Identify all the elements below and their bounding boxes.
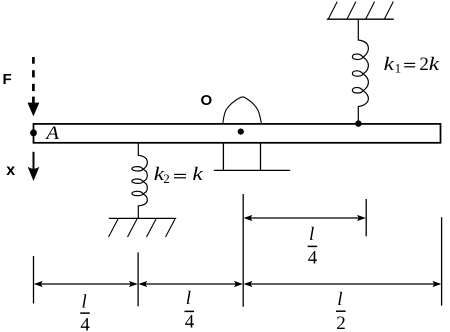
lower dimension arrows [35, 283, 440, 285]
svg-text:1: 1 [395, 60, 402, 75]
svg-text:k: k [429, 53, 440, 75]
pivot stand legs [223, 142, 260, 170]
svg-text:l: l [337, 289, 342, 310]
top fixed support line [327, 18, 394, 20]
svg-text:2: 2 [419, 54, 429, 75]
upper dimension arrow (l/4 from pivot to spring k1) [246, 217, 364, 219]
svg-text:x: x [6, 162, 15, 179]
lower fraction l/2 (right) [336, 289, 346, 332]
pivot dome above beam [223, 97, 262, 124]
dimension extension line at pivot (x=243) [242, 194, 244, 307]
bottom ground hatching [109, 219, 176, 237]
top support hatching [328, 2, 393, 20]
dimension tick at x=138 [137, 252, 139, 306]
svg-text:l: l [309, 224, 314, 245]
spring k2 (coil) [132, 142, 147, 218]
bottom ground line (under spring k2) [109, 217, 176, 219]
svg-text:l: l [82, 292, 87, 313]
svg-text:4: 4 [80, 314, 90, 332]
lower fraction l/4 (middle) [185, 288, 195, 332]
svg-text:4: 4 [308, 248, 318, 269]
svg-text:k: k [384, 53, 395, 75]
svg-text:O: O [201, 92, 213, 109]
svg-text:2: 2 [163, 171, 170, 186]
force F dashed arrow [32, 57, 35, 103]
dimension tick at x=366 (upper l/4 right end) [365, 199, 367, 236]
dimension tick at x=441.5 (beam right end) [441, 217, 443, 305]
upper fraction l/4 [308, 224, 318, 269]
label k1 = 2k [384, 53, 440, 75]
node A (pivot dot at left end of beam) [30, 129, 37, 136]
node: spring k1 attachment dot on beam [355, 120, 361, 126]
svg-text:k: k [192, 163, 203, 185]
displacement x arrow [33, 152, 35, 172]
beam (lever bar) [34, 124, 441, 143]
pivot base line [214, 169, 290, 171]
lower fraction l/4 (left) [80, 292, 90, 332]
svg-text:l: l [186, 288, 191, 309]
svg-text:2: 2 [336, 313, 346, 332]
svg-text:4: 4 [185, 312, 195, 332]
label k2 = k [154, 163, 204, 186]
spring k1 (coil) [352, 19, 368, 124]
dimension tick at x=33.5 (beam left end) [33, 256, 35, 304]
svg-text:A: A [44, 123, 60, 144]
svg-text:F: F [3, 71, 12, 88]
pivot dot on beam [238, 129, 244, 135]
